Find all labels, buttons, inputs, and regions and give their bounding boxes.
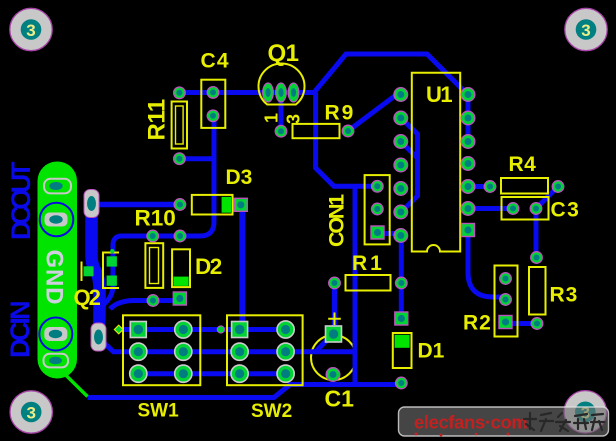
- svg-text:3: 3: [284, 114, 304, 124]
- svg-text:Q2: Q2: [74, 285, 101, 310]
- svg-text:Q1: Q1: [268, 40, 299, 67]
- svg-text:D3: D3: [226, 166, 253, 189]
- svg-text:C4: C4: [201, 50, 230, 73]
- svg-text:R3: R3: [550, 284, 579, 307]
- svg-text:SW1: SW1: [138, 401, 180, 422]
- svg-text:elecfans·com: elecfans·com: [414, 412, 527, 433]
- svg-text:GND: GND: [41, 250, 68, 306]
- svg-text:R2: R2: [463, 312, 492, 335]
- svg-text:R9: R9: [325, 102, 356, 125]
- svg-text:DCOUT: DCOUT: [6, 161, 36, 240]
- svg-text:D2: D2: [195, 254, 222, 279]
- svg-text:U1: U1: [426, 82, 452, 107]
- svg-text:SW2: SW2: [251, 401, 292, 422]
- svg-text:1: 1: [262, 113, 282, 123]
- svg-text:R4: R4: [509, 153, 537, 176]
- svg-text:D1: D1: [418, 340, 445, 363]
- svg-text:R10: R10: [135, 206, 176, 231]
- svg-text:R11: R11: [144, 99, 171, 140]
- svg-text:R1: R1: [352, 252, 385, 275]
- svg-text:C1: C1: [325, 386, 355, 412]
- svg-text:DCIN: DCIN: [5, 302, 35, 358]
- svg-text:C3: C3: [551, 199, 581, 222]
- svg-text:CON1: CON1: [325, 194, 349, 247]
